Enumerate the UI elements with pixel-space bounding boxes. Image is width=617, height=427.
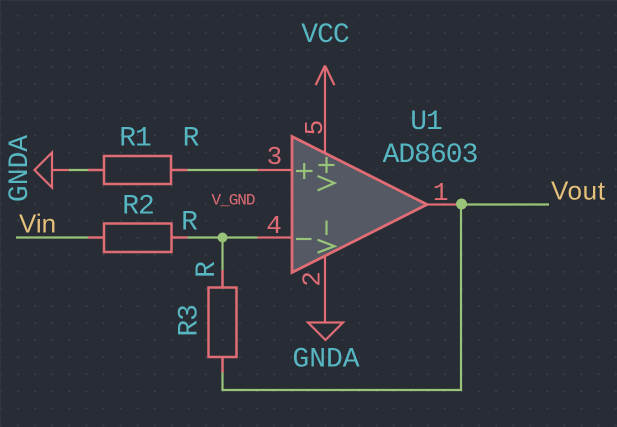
svg-text:R1: R1 bbox=[119, 124, 151, 155]
svg-text:Vin: Vin bbox=[19, 209, 56, 239]
svg-text:4: 4 bbox=[266, 211, 282, 241]
wire GNDA to R1 bbox=[69, 169, 88, 171]
wire output to Vout bbox=[462, 203, 550, 205]
wire R3 bottom to feedback run bbox=[223, 205, 462, 391]
resistor R3 bbox=[209, 270, 237, 373]
pin 4 (inverting input) bbox=[258, 236, 293, 238]
svg-text:2: 2 bbox=[298, 271, 328, 287]
wire Vin to R2 bbox=[16, 236, 88, 238]
op-amp U1 body bbox=[292, 137, 427, 273]
svg-text:VCC: VCC bbox=[301, 20, 349, 51]
svg-text:GNDA: GNDA bbox=[5, 135, 36, 202]
svg-text:GNDA: GNDA bbox=[292, 345, 359, 376]
svg-text:R: R bbox=[183, 124, 200, 155]
power symbol GNDA (left, global) bbox=[35, 153, 69, 188]
power symbol GNDA (bottom) bbox=[308, 323, 343, 341]
svg-text:R: R bbox=[192, 261, 223, 278]
resistor R1 bbox=[88, 156, 188, 184]
junction node V_GND bbox=[218, 233, 228, 243]
svg-text:5: 5 bbox=[300, 120, 330, 136]
svg-text:1: 1 bbox=[433, 178, 449, 208]
pin 5 (V+) and VCC symbol bbox=[316, 66, 335, 154]
plus input marker bbox=[296, 163, 313, 179]
resistor R2 bbox=[88, 224, 188, 253]
pin 3 (non-inverting input) bbox=[258, 169, 293, 171]
junction node output bbox=[456, 199, 467, 210]
minus input marker bbox=[296, 238, 312, 240]
pin 1 (output) bbox=[427, 203, 462, 205]
svg-text:R2: R2 bbox=[122, 192, 154, 223]
svg-text:R: R bbox=[181, 208, 198, 239]
svg-text:Vout: Vout bbox=[551, 176, 606, 206]
wire R1 to pin 3 bbox=[188, 169, 258, 171]
svg-text:U1: U1 bbox=[410, 107, 442, 138]
pin 2 (V-) bbox=[324, 256, 326, 323]
wire junction down to R3 bbox=[221, 238, 223, 271]
wire R2 to pin 4 bbox=[188, 236, 258, 238]
pin name V+ (rotated) bbox=[318, 157, 335, 191]
svg-text:R3: R3 bbox=[175, 305, 206, 337]
pin name V- (rotated) bbox=[318, 221, 335, 253]
svg-text:3: 3 bbox=[267, 142, 283, 172]
svg-text:AD8603: AD8603 bbox=[383, 140, 478, 171]
svg-text:V_GND: V_GND bbox=[211, 192, 254, 210]
